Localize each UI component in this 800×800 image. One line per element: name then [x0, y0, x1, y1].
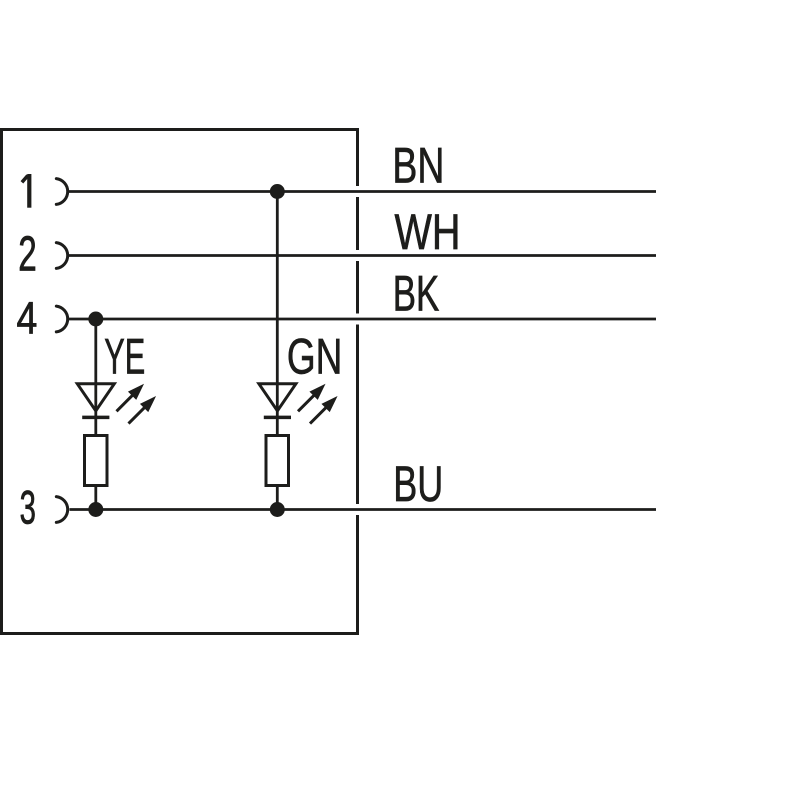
svg-text:GN: GN: [287, 329, 343, 385]
svg-text:YE: YE: [104, 329, 145, 385]
svg-text:BU: BU: [393, 456, 443, 512]
svg-text:WH: WH: [395, 204, 461, 260]
svg-text:2: 2: [18, 228, 37, 282]
svg-text:BK: BK: [393, 266, 440, 322]
svg-text:3: 3: [20, 482, 36, 535]
svg-text:BN: BN: [392, 138, 444, 194]
svg-text:4: 4: [17, 293, 38, 344]
